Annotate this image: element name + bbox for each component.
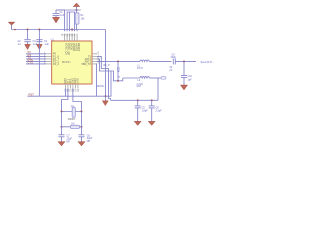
node: node VDD rail left	[14, 29, 16, 31]
antenna element	[161, 77, 166, 80]
resistor R4 parallel	[71, 123, 80, 129]
svg-text:.1uF: .1uF	[44, 43, 49, 46]
ground arrow below C2	[25, 44, 31, 49]
svg-text:1pF: 1pF	[188, 79, 193, 82]
svg-text:2.2pF: 2.2pF	[156, 110, 163, 113]
node: node XTAL rail left	[61, 111, 63, 113]
node: junction button rail	[117, 80, 119, 82]
svg-text:26MHz: 26MHz	[68, 118, 76, 121]
capacitor C7	[59, 135, 73, 144]
svg-text:MCP2x: MCP2x	[62, 60, 71, 64]
wire pin to crystal right	[73, 89, 82, 112]
capacitor C8	[79, 134, 93, 143]
node: node RF output	[137, 99, 139, 101]
bottom pin names inside	[64, 78, 80, 84]
right pin names inside	[81, 55, 91, 66]
top pin stubs gray	[65, 34, 78, 42]
left pin stubs	[46, 54, 52, 64]
node: junction RF line to button	[117, 60, 119, 62]
svg-text:RF_P: RF_P	[104, 64, 111, 67]
svg-text:VBD_TX: VBD_TX	[81, 63, 91, 66]
VDD horizontal run y=10	[56, 9, 81, 11]
ground arrow below C6	[148, 121, 155, 125]
right pin numbers	[98, 52, 100, 65]
bottom pin 1 wire to gnd run	[64, 89, 66, 97]
wire w3	[96, 64, 99, 96]
wire w2	[97, 59, 123, 81]
inductor L1 on RF row	[137, 60, 149, 70]
ground arrow below C1	[52, 17, 59, 23]
capacitor C5	[135, 100, 148, 121]
top pin names inside IC vertical	[64, 43, 80, 55]
power arrow up VDD	[73, 3, 80, 10]
svg-text:NP: NP	[67, 140, 71, 143]
wire A corner down right bus	[105, 30, 107, 102]
svg-text:1M: 1M	[71, 123, 74, 126]
blue text block near button	[117, 68, 121, 79]
bottom wire GND run	[28, 71, 112, 96]
ground arrow below C10	[180, 85, 187, 90]
node: node GND bus at bottom wire	[105, 95, 107, 97]
wire after L2 to antenna	[149, 77, 161, 79]
power symbol VDD top-left	[8, 22, 15, 29]
resistor R1	[75, 10, 85, 31]
node: node XTAL rail right	[81, 111, 83, 113]
wire corner to top pin 1	[56, 10, 65, 31]
svg-text:USB: USB	[77, 78, 80, 83]
capacitor C2	[18, 30, 38, 47]
series capacitor C9 on RF row	[170, 54, 197, 73]
svg-text:RESET: RESET	[77, 43, 80, 52]
ground arrow below C8	[78, 142, 85, 146]
vertical joins	[61, 112, 63, 136]
capacitor C1 top middle	[53, 10, 65, 17]
bottom right rail	[111, 99, 159, 101]
svg-text:P2_2: P2_2	[53, 63, 59, 66]
inductor L2	[137, 77, 150, 89]
node: node match rail C6	[183, 60, 185, 62]
wire from RF row down to button rail	[117, 61, 119, 80]
node: node VDD rail C3	[38, 29, 40, 31]
IC U1	[51, 38, 106, 88]
node: node XTAL lower rail right	[81, 126, 83, 128]
svg-text:.1uF: .1uF	[60, 14, 65, 17]
wire corner to top pins inner	[67, 12, 75, 31]
svg-text:NP: NP	[87, 140, 91, 143]
crystal top rail	[62, 111, 82, 113]
wire A horizontal VDD rail	[12, 29, 106, 31]
bottom pin stubs	[65, 84, 78, 89]
svg-text:MCP2x: MCP2x	[97, 85, 106, 88]
wire corner down from antenna node	[157, 78, 159, 100]
svg-text:ANT: ANT	[137, 85, 142, 88]
left pin numbers	[44, 52, 46, 65]
svg-text:220p: 220p	[171, 56, 177, 59]
crystal lower rail	[62, 126, 82, 128]
node: node VDD rail C2	[27, 29, 29, 31]
capacitor C6	[149, 100, 162, 121]
wire	[69, 12, 71, 31]
node: junction VDD C1 rail	[76, 9, 78, 11]
ground arrow below C5	[134, 121, 141, 125]
wire w1	[97, 56, 111, 100]
long vertical net from wire A down left side	[38, 30, 40, 97]
left net wires	[26, 54, 46, 64]
top pin numbers gray text	[61, 33, 76, 36]
crystal Q1	[68, 105, 76, 121]
node: node VDD rail pin 10	[71, 29, 73, 31]
right pin stubs	[92, 54, 97, 64]
bottom pin numbers	[64, 89, 80, 92]
node: node XTAL lower rail left	[61, 126, 63, 128]
svg-text:RST: RST	[29, 92, 35, 96]
ground arrow below C3	[37, 44, 43, 49]
left pin names inside	[53, 53, 59, 66]
long RF wire row	[97, 60, 140, 62]
left net labels red	[28, 50, 34, 64]
svg-text:CTS: CTS	[28, 60, 34, 64]
antenna feed wire y=78	[123, 77, 140, 79]
wire pin to crystal left	[62, 89, 68, 112]
ground arrow below C7	[58, 142, 65, 146]
capacitor C3	[36, 40, 49, 46]
power arrow down at bus bottom	[102, 101, 108, 106]
svg-text:1.8pF: 1.8pF	[142, 110, 149, 113]
wire from wire A to top pin	[71, 30, 73, 32]
svg-text:27nH: 27nH	[137, 67, 143, 70]
node: node match rail C5	[151, 99, 153, 101]
capacitor C10 shunt	[181, 61, 193, 85]
svg-text:Servo B X1: Servo B X1	[201, 61, 214, 64]
